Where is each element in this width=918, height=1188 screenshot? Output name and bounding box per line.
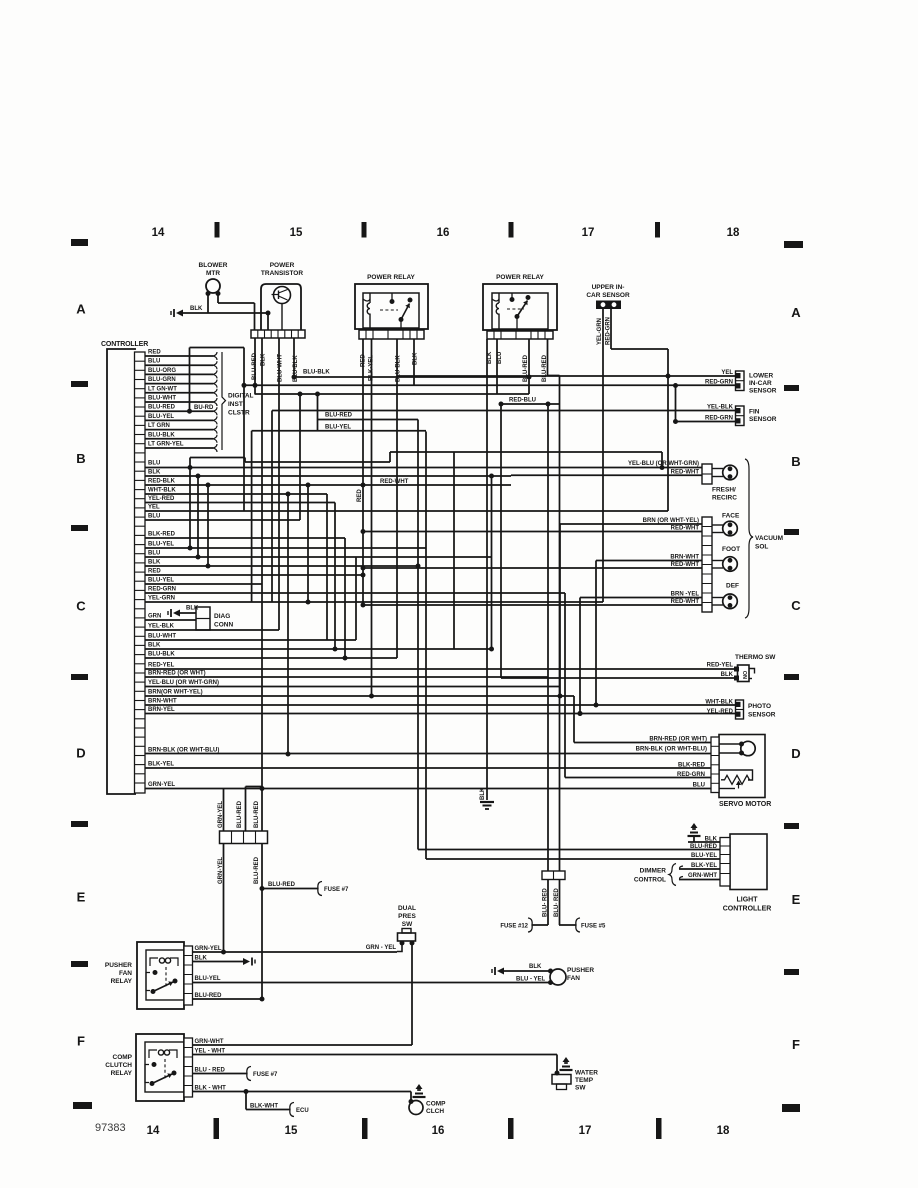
wire BRN-RED (OR WHT) controller row y677 — [145, 671, 548, 678]
svg-text:18: 18 — [727, 227, 740, 239]
svg-text:RED-GRN: RED-GRN — [148, 587, 176, 593]
wire trunk x356 — [355, 557, 357, 640]
power transistor connector bar — [251, 330, 305, 338]
wire BLK-YEL controller row y768 — [145, 762, 711, 769]
wire YEL to lower in-car sensor — [398, 370, 736, 376]
svg-text:SERVO MOTOR: SERVO MOTOR — [719, 801, 771, 808]
digital inst clstr brace and label — [222, 352, 254, 450]
wire RED (cluster row 1) — [145, 350, 217, 361]
wire BLU-RED to fuse 7 upper — [262, 882, 349, 896]
svg-text:BLK: BLK — [487, 351, 493, 364]
wire transistor BLU-BLK pin drop — [292, 338, 297, 380]
svg-text:BU-RD: BU-RD — [194, 405, 214, 411]
wire YEL controller row y511 — [145, 505, 668, 512]
svg-text:BLU-RED: BLU-RED — [254, 800, 260, 828]
foot vacuum solenoid — [712, 546, 740, 571]
wire YEL-RED controller row y502.5 — [145, 496, 335, 503]
svg-text:FIN: FIN — [749, 409, 760, 416]
wire BRN-BLK (OR WHT-BLU) controller row y754 — [148, 748, 219, 754]
svg-text:POWER RELAY: POWER RELAY — [367, 274, 415, 281]
wire RED-GRN to servo motor — [565, 772, 711, 778]
svg-text:C: C — [76, 599, 86, 614]
svg-text:A: A — [791, 305, 801, 320]
svg-text:BRN-RED (OR WHT): BRN-RED (OR WHT) — [148, 671, 206, 677]
svg-text:BLK: BLK — [148, 560, 161, 566]
svg-text:BLU: BLU — [148, 359, 160, 365]
vacuum sol brace and label — [745, 459, 783, 618]
svg-text:IN-CAR: IN-CAR — [749, 380, 772, 387]
wire RED controller row y575 — [145, 569, 366, 578]
power relay K1 connector bar — [359, 330, 424, 339]
svg-text:BRN-RED (OR WHT): BRN-RED (OR WHT) — [649, 737, 707, 743]
wire relay K1 BLK pin to y385 — [413, 339, 415, 386]
svg-text:GRN-WHT: GRN-WHT — [688, 873, 717, 879]
wire RED-WHT to face — [361, 526, 703, 534]
svg-text:RED: RED — [148, 350, 161, 356]
svg-text:BRN-WHT: BRN-WHT — [148, 699, 177, 705]
wire GRN controller row y620 — [145, 614, 196, 621]
svg-text:BLK: BLK — [480, 787, 486, 800]
svg-text:FRESH/: FRESH/ — [712, 487, 736, 494]
svg-text:FUSE #7: FUSE #7 — [324, 887, 349, 893]
svg-text:NO: NO — [743, 670, 749, 679]
wire BLK controller row y566 — [145, 560, 418, 569]
svg-text:LT GN-WT: LT GN-WT — [148, 386, 177, 392]
svg-text:BLU - YEL: BLU - YEL — [516, 977, 546, 983]
fin sensor connector — [736, 406, 777, 426]
wire BRN (OR WHT-YEL) to face — [560, 518, 702, 696]
svg-text:CLUTCH: CLUTCH — [105, 1062, 132, 1069]
svg-text:BLOWER: BLOWER — [199, 262, 228, 269]
wire BLU (cluster row 2) — [145, 359, 217, 370]
wire GRN-WHT from comp clutch relay — [193, 1039, 413, 1045]
wire WHT-BLK controller row y494 — [145, 488, 327, 495]
face vacuum solenoid — [712, 513, 740, 536]
wire BLK to thermo sw — [501, 672, 734, 678]
svg-text:BLU-YEL: BLU-YEL — [195, 976, 221, 982]
svg-text:17: 17 — [582, 227, 595, 239]
svg-text:POWER: POWER — [270, 262, 295, 269]
svg-text:GRN - YEL: GRN - YEL — [366, 945, 397, 951]
wire y394 bus — [255, 339, 530, 397]
svg-text:YEL-BLU (OR WHT-GRN): YEL-BLU (OR WHT-GRN) — [148, 680, 219, 686]
wire trunk x426 BLU-YEL to light controller — [425, 432, 427, 860]
svg-text:BLU: BLU — [148, 461, 160, 467]
wire bus y452 — [252, 431, 665, 602]
svg-text:FACE: FACE — [722, 513, 740, 520]
wire YEL-WHT from comp clutch relay to water temp sw — [193, 1049, 558, 1072]
svg-text:PUSHER: PUSHER — [567, 967, 594, 974]
svg-text:FAN: FAN — [567, 975, 580, 982]
wire BLU-BLK controller row y658 — [145, 652, 397, 661]
page frame: top column numbers and ticks — [71, 222, 803, 248]
svg-text:BLU-WHT: BLU-WHT — [148, 634, 176, 640]
servo motor M2 — [711, 735, 771, 809]
wire YEL-GRN controller row y602 — [145, 596, 603, 603]
svg-text:16: 16 — [437, 227, 450, 239]
svg-text:FUSE #12: FUSE #12 — [500, 924, 528, 930]
wire RED-GRN controller row y593 — [145, 587, 565, 594]
wire BLK controller row y476 — [145, 470, 511, 479]
svg-text:RED-WHT: RED-WHT — [671, 599, 700, 605]
wire LT GRN-YEL (cluster row 11) — [145, 442, 217, 453]
svg-text:E: E — [792, 892, 801, 907]
svg-text:YEL-RED: YEL-RED — [148, 496, 175, 502]
svg-text:BLU-YEL: BLU-YEL — [148, 542, 174, 548]
svg-text:YEL: YEL — [148, 505, 160, 511]
wire trunk x308 — [306, 483, 311, 605]
wire BRN-YEL to def — [580, 592, 702, 598]
svg-text:CONN: CONN — [214, 622, 233, 629]
pusher fan relay K3 — [105, 942, 184, 1009]
wire trunk x454 — [453, 452, 455, 649]
wire BLU-YEL from pusher fan relay — [193, 976, 552, 983]
svg-text:16: 16 — [432, 1125, 445, 1137]
svg-text:DEF: DEF — [726, 583, 739, 590]
svg-text:17: 17 — [579, 1125, 592, 1137]
svg-text:BRN-BLK (OR WHT-BLU): BRN-BLK (OR WHT-BLU) — [636, 747, 707, 753]
water temp switch — [552, 1057, 598, 1092]
wire RED-GRN from upper in-car sensor down then right — [611, 309, 671, 511]
lower in-car sensor connector — [736, 371, 777, 395]
wire trunk x418 BLU-RED to light controller — [416, 420, 421, 850]
ground G1 BLK at blower motor — [171, 306, 203, 317]
wire BLU-YEL controller row y584 — [145, 578, 262, 585]
controller pin ladder — [135, 361, 146, 783]
wire transistor BLU-RED pin drop — [253, 338, 258, 394]
wire YEL-BLK controller row y630 — [145, 624, 279, 631]
wire YEL-BLU (OR WHT-GRN) to fresh/recirc — [145, 461, 702, 470]
svg-text:A: A — [76, 302, 86, 317]
wire BLU-RED (cluster row 7) — [145, 405, 217, 416]
svg-text:POWER RELAY: POWER RELAY — [496, 274, 544, 281]
svg-text:RECIRC: RECIRC — [712, 495, 737, 502]
wire BLU-YEL to light controller — [426, 853, 720, 859]
connector block C4 (grn-yel / blu-red harness) — [220, 831, 268, 844]
svg-text:BLU-YEL: BLU-YEL — [325, 425, 351, 431]
blower motor B1 — [199, 262, 228, 296]
svg-text:BLU-GRN: BLU-GRN — [148, 377, 176, 383]
wire BLU-WHT (cluster row 6) — [145, 396, 217, 407]
wire riser BLU-RED from controller to transistor — [190, 348, 245, 412]
svg-text:RED: RED — [148, 569, 161, 575]
svg-text:RED-WHT: RED-WHT — [671, 562, 700, 568]
svg-text:FUSE #5: FUSE #5 — [581, 924, 606, 930]
svg-text:CONTROLLER: CONTROLLER — [723, 906, 772, 913]
svg-text:LOWER: LOWER — [749, 373, 773, 380]
page frame: left row letters and dashes — [71, 302, 88, 1049]
power relay K1 — [355, 274, 428, 330]
svg-text:GRN: GRN — [148, 614, 161, 620]
svg-text:BLU-WHT: BLU-WHT — [148, 396, 176, 402]
svg-text:BRN-BLK (OR WHT-BLU): BRN-BLK (OR WHT-BLU) — [148, 748, 219, 754]
ground at light controller BLK pin — [688, 823, 701, 842]
svg-text:THERMO SW: THERMO SW — [735, 654, 776, 661]
wire trunk x244 drop to y385 bus — [242, 348, 247, 512]
wire RED-GRN to lower in-car sensor — [244, 380, 736, 389]
wire trunk x327 — [326, 494, 328, 640]
svg-text:CLSTR: CLSTR — [228, 410, 250, 417]
wire relay K1 BLU-BLK trunk — [396, 339, 398, 658]
svg-text:B: B — [76, 451, 85, 466]
fuse connector block near light controller — [542, 871, 565, 880]
wire YEL-RED to photo sensor — [707, 709, 734, 715]
power relay K2 connector bar — [487, 331, 553, 339]
wire YEL-BLK to fin sensor — [272, 405, 736, 411]
svg-text:SENSOR: SENSOR — [749, 416, 777, 423]
svg-text:YEL-BLK: YEL-BLK — [148, 624, 175, 630]
wire trunk x345 — [344, 538, 346, 658]
power transistor Q1 — [261, 262, 303, 330]
wire GRN-WHT to light controller — [679, 873, 720, 880]
wire GRN-YEL from pusher fan relay — [193, 946, 398, 952]
dual pressure switch — [398, 905, 417, 946]
dimmer control brace — [634, 864, 676, 886]
wire BLU-RED trunk to fuse 5 — [548, 339, 607, 932]
wire trunk x565 RED-GRN to servo — [564, 593, 566, 778]
wire BLU-BLK (cluster row 10) — [145, 432, 217, 443]
svg-text:SW: SW — [575, 1085, 586, 1092]
wire YEL-BLU (OR WHT-GRN) controller row y686.5 — [145, 680, 560, 687]
svg-text:18: 18 — [717, 1125, 730, 1137]
svg-text:YEL-BLK: YEL-BLK — [707, 405, 734, 411]
wire BRN-WHT controller row y705 — [145, 699, 736, 708]
svg-text:BLU-YEL: BLU-YEL — [148, 414, 174, 420]
wire RED-WHT to def — [361, 599, 703, 608]
svg-text:BLU-RED: BLU-RED — [148, 405, 176, 411]
svg-text:RED: RED — [357, 489, 363, 502]
pusher fan motor — [548, 967, 594, 985]
wire GRN-YEL controller row y788.5 — [148, 782, 175, 788]
svg-text:COMP: COMP — [113, 1054, 133, 1061]
svg-text:BLU: BLU — [148, 514, 160, 520]
svg-text:BLK: BLK — [195, 955, 208, 961]
svg-text:BLU-RED: BLU-RED — [254, 856, 260, 884]
svg-text:WHT-BLK: WHT-BLK — [148, 488, 176, 494]
svg-text:VACUUM: VACUUM — [755, 535, 783, 542]
svg-text:GRN-YEL: GRN-YEL — [148, 782, 175, 788]
svg-text:D: D — [76, 746, 85, 761]
svg-text:CAR SENSOR: CAR SENSOR — [586, 292, 630, 299]
wire BLU-RED trunk x241 — [237, 787, 262, 832]
wire trunk x198 — [197, 476, 199, 557]
wire trunk x574 BRN to servo — [573, 696, 575, 743]
svg-text:BLK: BLK — [148, 470, 161, 476]
svg-text:YEL-GRN: YEL-GRN — [597, 318, 603, 345]
svg-text:DIGITAL: DIGITAL — [228, 393, 254, 400]
svg-text:BLK-WHT: BLK-WHT — [250, 1104, 278, 1110]
svg-text:FOOT: FOOT — [722, 546, 740, 553]
svg-text:BRN (OR WHT-YEL): BRN (OR WHT-YEL) — [643, 518, 699, 524]
svg-text:BLK-YEL: BLK-YEL — [691, 863, 717, 869]
svg-text:BLK: BLK — [721, 672, 734, 678]
wire BLK-WHT from comp clutch relay to comp clutch — [193, 1086, 412, 1094]
svg-text:DUAL: DUAL — [398, 905, 416, 912]
svg-text:BRN-YEL: BRN-YEL — [148, 707, 175, 713]
wire trunk x272 — [271, 411, 273, 603]
wire BLK ground bus y313 — [183, 311, 271, 331]
svg-text:LT GRN: LT GRN — [148, 423, 170, 429]
svg-text:CONTROLLER: CONTROLLER — [101, 341, 148, 348]
svg-text:RELAY: RELAY — [111, 1070, 133, 1077]
pusher fan relay connector strip — [184, 946, 193, 1005]
wire BLK controller row y649 — [145, 643, 492, 652]
svg-text:RED-WHT: RED-WHT — [380, 479, 409, 485]
svg-text:E: E — [77, 890, 86, 905]
wire WHT-BLK to photo sensor — [705, 700, 733, 706]
svg-text:C: C — [791, 598, 801, 613]
wire BRN-YEL controller row y713.5 — [145, 707, 736, 716]
svg-text:TRANSISTOR: TRANSISTOR — [261, 270, 303, 277]
wire BLK from pusher fan relay to ground — [193, 955, 256, 965]
wire BLU-GRN (cluster row 4) — [145, 377, 217, 388]
wire RED-YEL to thermo sw — [707, 663, 734, 669]
svg-text:RED-BLU: RED-BLU — [509, 398, 536, 404]
wire BLK to light controller — [688, 837, 720, 843]
wire BLU-RED to light controller — [418, 844, 720, 850]
wire RED-WHT to foot — [361, 562, 703, 571]
wire BLU to servo motor — [145, 783, 711, 789]
svg-text:FUSE #7: FUSE #7 — [253, 1072, 278, 1078]
wire BLK-RED controller row y538 — [145, 532, 345, 539]
svg-text:BLU: BLU — [497, 352, 503, 364]
svg-text:WATER: WATER — [575, 1070, 598, 1077]
wire BLU-ORG (cluster row 3) — [145, 368, 217, 379]
svg-text:PRES: PRES — [398, 913, 416, 920]
wire BRN-BLK (OR WHT-BLU) to servo motor — [145, 747, 711, 754]
wire relay K1 RED trunk x363 — [362, 339, 364, 605]
wire BLU-RED from comp clutch relay to fuse 7 — [193, 1067, 279, 1081]
wire BLU controller row y467 — [148, 461, 160, 467]
svg-text:RELAY: RELAY — [111, 978, 133, 985]
svg-text:RED-BLK: RED-BLK — [148, 479, 176, 485]
svg-text:BLU-RED: BLU-RED — [237, 800, 243, 828]
controller U1 box — [101, 341, 148, 794]
light controller — [720, 834, 771, 913]
svg-text:SW: SW — [402, 921, 413, 928]
wire trunk x596 BRN-WHT to foot — [595, 561, 597, 706]
svg-text:D: D — [791, 746, 800, 761]
fresh/recirc vacuum solenoid — [702, 464, 737, 502]
node BU-RD junction on BLU-RED cluster wire — [187, 405, 214, 414]
svg-text:UPPER IN-: UPPER IN- — [592, 284, 625, 291]
wire BLU-BLK horizontal y377 — [294, 370, 532, 380]
svg-text:BLK-RED: BLK-RED — [148, 532, 176, 538]
svg-text:BLU-YEL: BLU-YEL — [148, 578, 174, 584]
wire trunk x288 — [286, 492, 291, 757]
wire trunk x190 — [189, 458, 191, 549]
svg-text:BLU-BLK: BLU-BLK — [303, 370, 330, 376]
svg-text:PHOTO: PHOTO — [748, 703, 771, 710]
wire BLU-YEL y431 — [252, 425, 426, 431]
def vacuum solenoid — [712, 583, 739, 609]
wire BLK-RED to servo motor — [678, 763, 706, 769]
svg-text:BLU-RED: BLU-RED — [195, 993, 223, 999]
svg-text:PUSHER: PUSHER — [105, 962, 132, 969]
wire BLU-YEL controller row y548 — [145, 542, 426, 551]
svg-text:F: F — [792, 1037, 800, 1052]
svg-text:BLU-BLK: BLU-BLK — [148, 432, 175, 438]
wire BLU-RED trunk x255 — [254, 338, 265, 1002]
svg-text:SENSOR: SENSOR — [749, 388, 777, 395]
wire BLU controller row y520 — [145, 514, 300, 521]
wire RED-BLK controller row y485 — [145, 479, 511, 488]
wire BLK-YEL to light controller — [679, 863, 720, 869]
svg-text:SENSOR: SENSOR — [748, 712, 776, 719]
svg-text:BRN-WHT: BRN-WHT — [670, 554, 699, 560]
svg-text:97383: 97383 — [95, 1122, 126, 1134]
svg-text:ECU: ECU — [296, 1108, 309, 1114]
svg-text:RED-YEL: RED-YEL — [707, 663, 734, 669]
svg-text:GRN-YEL: GRN-YEL — [195, 946, 222, 952]
power relay K2 — [483, 274, 557, 331]
svg-text:BLU-BLK: BLU-BLK — [148, 652, 175, 658]
wire trunk x492 — [489, 475, 494, 651]
page frame: bottom column numbers and ticks — [73, 1102, 800, 1139]
svg-text:INST: INST — [228, 401, 243, 408]
ground and wire BLK at pusher fan — [492, 964, 551, 975]
wire trunk x208 — [207, 485, 209, 566]
wire BRN-WHT to foot — [596, 554, 702, 560]
svg-text:RED-GRN: RED-GRN — [705, 416, 733, 422]
ground at relay K2 BLK trunk — [480, 787, 494, 809]
diag connector — [196, 607, 233, 630]
wire BLU-RED trunk to fuse 12 — [500, 404, 548, 932]
page frame: right row letters and dashes — [784, 305, 801, 1052]
svg-text:BLK: BLK — [529, 964, 542, 970]
svg-text:BLU-YEL: BLU-YEL — [691, 853, 717, 859]
wire BLU-WHT controller row y640 — [145, 634, 356, 641]
svg-text:BLU-RED: BLU-RED — [325, 413, 353, 419]
svg-text:RED-YEL: RED-YEL — [148, 663, 175, 669]
svg-text:BLK: BLK — [148, 643, 161, 649]
svg-text:CONTROL: CONTROL — [634, 877, 666, 884]
svg-text:TEMP: TEMP — [575, 1077, 594, 1084]
svg-text:LIGHT: LIGHT — [737, 897, 759, 904]
wire relay K2 BLK pin to ground — [486, 339, 488, 800]
svg-text:15: 15 — [290, 227, 303, 239]
svg-text:LT GRN-YEL: LT GRN-YEL — [148, 442, 184, 448]
svg-text:SOL: SOL — [755, 544, 768, 551]
wire transistor BLU-WHT pin trunk — [278, 338, 280, 630]
wire RED-BLU y404 — [499, 398, 560, 679]
wire YEL-GRN trunk from upper in-car sensor to controller — [602, 309, 604, 602]
svg-text:COMP: COMP — [426, 1101, 446, 1108]
wire BLU-RED from pusher fan relay — [193, 993, 263, 999]
upper in-car sensor — [586, 284, 630, 309]
wire blower motor left lead to ground bus — [207, 294, 209, 314]
vacuum sol connector strip — [702, 517, 712, 612]
wire relay K2 BLU pin drop — [496, 339, 498, 394]
wire RED-GRN to fin sensor — [673, 386, 736, 425]
wire trunk x300 — [298, 392, 303, 521]
wire BRN-RED (OR WHT) to servo motor — [574, 737, 711, 743]
svg-text:MTR: MTR — [206, 270, 220, 277]
svg-text:BLK: BLK — [186, 606, 199, 612]
wire blower motor right lead — [218, 294, 255, 331]
svg-text:B: B — [791, 454, 800, 469]
wire BLU-RED y419 — [318, 394, 419, 432]
svg-text:BLU: BLU — [148, 551, 160, 557]
svg-text:BRN(OR WHT-YEL): BRN(OR WHT-YEL) — [148, 690, 203, 696]
svg-text:14: 14 — [147, 1125, 160, 1137]
ground BLK at diag conn — [168, 606, 199, 618]
wire BRN(OR WHT-YEL) controller row y696 — [145, 690, 574, 699]
wire trunk x335 — [334, 503, 336, 650]
svg-text:DIMMER: DIMMER — [640, 868, 667, 875]
comp clutch relay connector strip — [184, 1038, 193, 1097]
wire RED-WHT to fresh/recirc — [511, 469, 702, 475]
